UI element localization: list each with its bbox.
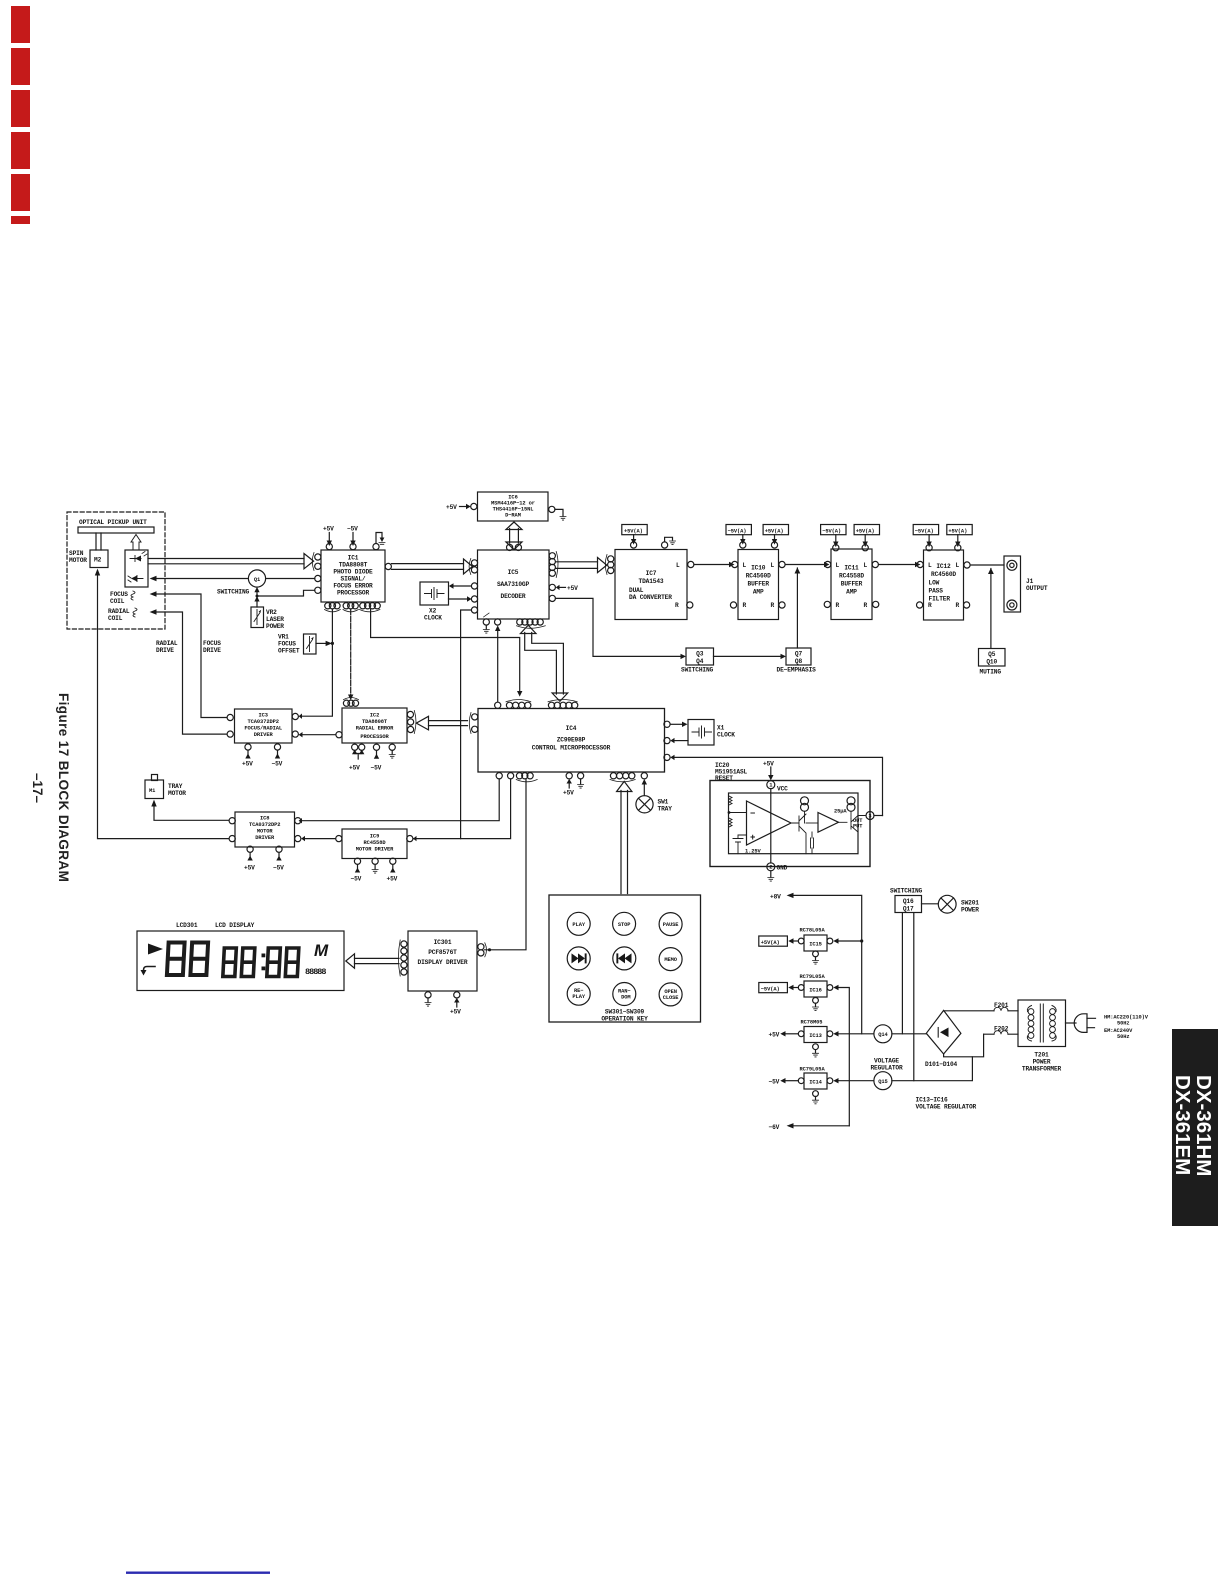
Q3 Q4 switching	[686, 648, 714, 665]
svg-text:PLAY: PLAY	[572, 922, 585, 928]
svg-text:PAUSE: PAUSE	[663, 922, 680, 928]
bridge rectifier D101-D104	[926, 1010, 961, 1054]
svg-text:−5V(A): −5V(A)	[822, 528, 841, 534]
IC3 -5V	[277, 751, 279, 755]
IC8 +5V	[249, 853, 251, 857]
svg-text:BUFFER: BUFFER	[841, 581, 863, 588]
svg-text:+5V: +5V	[323, 526, 334, 533]
wire IC10 L out to IC11	[785, 564, 824, 566]
T201 power transformer	[1018, 1000, 1066, 1047]
operation key panel	[549, 895, 701, 1022]
svg-text:+5V: +5V	[763, 761, 774, 768]
pickup lens arrow	[131, 535, 141, 551]
Q1	[248, 570, 265, 587]
svg-text:Q8: Q8	[795, 658, 803, 665]
IC7 left pins	[608, 556, 614, 562]
wire radial drive	[156, 612, 227, 734]
svg-text:FOCUS ERROR: FOCUS ERROR	[333, 583, 373, 590]
wire IC1 group3 to IC4	[371, 609, 520, 691]
svg-text:VOLTAGE REGULATOR: VOLTAGE REGULATOR	[916, 1104, 977, 1111]
svg-text:IC301: IC301	[434, 939, 452, 946]
svg-text:R: R	[836, 602, 840, 609]
pickup rail	[78, 527, 154, 533]
X2 clock	[420, 582, 449, 605]
IC7 output pins	[688, 561, 694, 567]
wire X1 to IC4	[674, 740, 688, 742]
key REW	[613, 947, 636, 970]
svg-text:Q10: Q10	[986, 659, 997, 666]
svg-text:PUT: PUT	[853, 824, 863, 830]
svg-text:Q1: Q1	[254, 577, 260, 583]
wire VR1 to focus line	[316, 642, 326, 644]
svg-text:R: R	[864, 602, 868, 609]
svg-text:RC78L05A: RC78L05A	[800, 928, 826, 934]
svg-text:TRANSFORMER: TRANSFORMER	[1022, 1066, 1062, 1073]
svg-text:50Hz: 50Hz	[1117, 1021, 1130, 1027]
svg-text:3: 3	[868, 813, 871, 819]
keypad bus	[621, 791, 628, 894]
Q14	[874, 1025, 892, 1043]
IC9 ground	[374, 865, 376, 870]
svg-text:F201: F201	[994, 1002, 1009, 1009]
svg-text:RC79L05A: RC79L05A	[800, 1067, 826, 1073]
svg-text:POWER: POWER	[1033, 1059, 1051, 1066]
svg-text:R: R	[771, 602, 775, 609]
svg-text:L: L	[864, 562, 868, 569]
IC4 ZC99E98P control microprocessor	[478, 709, 665, 773]
svg-text:STOP: STOP	[618, 922, 631, 928]
svg-text:Q15: Q15	[878, 1079, 887, 1085]
IC4 pins right	[664, 721, 670, 727]
wire IC4 to motor drivers lines	[302, 779, 500, 821]
svg-text:+5V: +5V	[563, 790, 574, 797]
svg-text:DECODER: DECODER	[501, 593, 526, 600]
wire IC11 L out to IC12	[879, 564, 916, 566]
IC2 +5V pins	[355, 751, 362, 759]
IC10 RC4560D buffer amp	[738, 550, 779, 620]
svg-text:MOTOR: MOTOR	[257, 829, 274, 835]
svg-text:−5V: −5V	[769, 1079, 780, 1086]
svg-text:TDA1543: TDA1543	[639, 578, 664, 585]
svg-text:1: 1	[769, 783, 772, 789]
VR1 focus offset	[304, 634, 317, 654]
IC1 TDA8808T	[321, 550, 385, 602]
wire SW1	[643, 782, 645, 796]
svg-text:RADIAL: RADIAL	[108, 608, 130, 615]
IC4 pins top	[495, 702, 501, 708]
svg-text:RC79L05A: RC79L05A	[800, 974, 826, 980]
IC20 transistor and cap	[791, 814, 814, 854]
svg-text:DRIVE: DRIVE	[156, 647, 174, 654]
svg-text:PCF8576T: PCF8576T	[428, 949, 457, 956]
J1 output connector	[1004, 556, 1021, 612]
svg-text:IC4: IC4	[566, 725, 577, 732]
key OPEN/CLOSE	[659, 983, 682, 1006]
svg-text:T201: T201	[1034, 1052, 1049, 1059]
svg-text:−5V(A): −5V(A)	[915, 528, 934, 534]
svg-text:2: 2	[769, 865, 772, 871]
svg-text:Q17: Q17	[903, 906, 914, 913]
svg-text:SAA7310GP: SAA7310GP	[497, 581, 530, 588]
IC12 +5V(A)	[947, 525, 972, 535]
svg-text:+5V: +5V	[244, 865, 255, 872]
svg-text:POWER: POWER	[266, 623, 284, 630]
svg-text:−5V: −5V	[371, 765, 382, 772]
wire IC1 group1 down to IC3	[302, 609, 333, 716]
IC12 RC4560D low pass filter	[924, 550, 964, 620]
svg-text:SWITCHING: SWITCHING	[681, 667, 714, 674]
svg-text:−5V(A): −5V(A)	[728, 528, 747, 534]
wire IC5 to X2	[453, 585, 471, 587]
IC5 ground pin bottom	[485, 625, 487, 629]
wire X2 to IC5	[449, 598, 469, 600]
svg-text:IC14: IC14	[809, 1080, 822, 1086]
F201 fuse line	[944, 1010, 1018, 1012]
svg-text:DUAL: DUAL	[629, 587, 644, 594]
svg-text:50Hz: 50Hz	[1117, 1034, 1130, 1040]
svg-text:L: L	[771, 562, 775, 569]
key STOP	[613, 912, 636, 935]
svg-text:+5V: +5V	[446, 504, 457, 511]
svg-text:AMP: AMP	[753, 589, 764, 596]
svg-text:−: −	[750, 809, 755, 819]
wire IC5 left pin down long	[461, 610, 472, 839]
VR2 laser power	[251, 607, 264, 628]
LCD repeat icon	[144, 967, 156, 972]
svg-text:TRAY: TRAY	[658, 806, 673, 813]
svg-text:IC13−IC16: IC13−IC16	[916, 1097, 949, 1104]
IC20 output pin 3	[866, 812, 874, 820]
svg-text:Q4: Q4	[696, 658, 704, 665]
key MEMO	[659, 948, 682, 971]
Q16Q17 feeders	[902, 913, 913, 1081]
svg-text:VCC: VCC	[777, 786, 788, 793]
IC1 pin circles top	[326, 544, 332, 550]
svg-text:IC10: IC10	[751, 565, 766, 572]
svg-text:MOTOR: MOTOR	[69, 557, 87, 564]
svg-text:RADIAL: RADIAL	[156, 640, 178, 647]
IC11 -5V(A)	[821, 525, 846, 535]
svg-text:+5V: +5V	[769, 1032, 780, 1039]
svg-text:X2: X2	[429, 608, 437, 615]
svg-text:R: R	[743, 602, 747, 609]
IC3 +5V	[247, 751, 249, 755]
svg-text:Figure 17 BLOCK DIAGRAM: Figure 17 BLOCK DIAGRAM	[56, 693, 71, 882]
svg-text:CLOCK: CLOCK	[717, 732, 735, 739]
wire Q3Q4 to Q7Q8	[714, 655, 782, 657]
F202 fuse line	[984, 1033, 1018, 1035]
svg-text:MEMO: MEMO	[664, 957, 677, 963]
photo diode symbol	[131, 576, 137, 582]
IC9 +5V	[392, 865, 394, 869]
svg-text:SPIN: SPIN	[69, 550, 84, 557]
IC2 ground pin	[391, 751, 393, 755]
Q15	[874, 1072, 892, 1090]
svg-text:IC9: IC9	[370, 834, 379, 840]
svg-text:R: R	[956, 602, 960, 609]
IC6 D-RAM	[478, 492, 549, 521]
svg-text:IC13: IC13	[809, 1033, 822, 1039]
IC20 reset IC outer box	[710, 781, 870, 867]
svg-text:OUTPUT: OUTPUT	[1026, 585, 1048, 592]
svg-text:L: L	[743, 562, 747, 569]
IC7 +5V(A)	[622, 525, 647, 535]
svg-text:RC4558D: RC4558D	[364, 840, 387, 846]
svg-text:FOCUS: FOCUS	[278, 641, 296, 648]
svg-text:IC12: IC12	[936, 563, 951, 570]
svg-text:L: L	[928, 562, 932, 569]
IC5 pins left	[471, 560, 477, 566]
svg-text:IC2: IC2	[370, 713, 379, 719]
spin motor M2	[90, 550, 108, 568]
SW201 power switch	[938, 895, 956, 913]
svg-text:CLOCK: CLOCK	[424, 615, 442, 622]
svg-text:Q16: Q16	[903, 898, 914, 905]
IC10 +5V(A)	[763, 525, 788, 535]
svg-text:LOW: LOW	[929, 580, 940, 587]
red edge registration marks	[11, 6, 30, 224]
wire pickup to IC1 bus	[148, 559, 304, 564]
svg-text:OFFSET: OFFSET	[278, 648, 300, 655]
IC20 output stage	[839, 816, 867, 854]
AC plug	[1066, 1022, 1077, 1024]
svg-text:DRIVE: DRIVE	[203, 647, 221, 654]
bridge bottom rail	[944, 1034, 984, 1057]
IC8 TCA0372DP2 motor driver	[235, 812, 295, 847]
LCD digits 88:88	[223, 948, 299, 977]
svg-text:SWITCHING: SWITCHING	[890, 888, 923, 895]
svg-text:IC7: IC7	[646, 570, 657, 577]
figure caption vertical	[30, 693, 71, 882]
IC1 ground hook	[376, 533, 382, 544]
svg-text:VOLTAGE: VOLTAGE	[874, 1058, 899, 1065]
svg-text:−5V(A): −5V(A)	[761, 986, 780, 992]
svg-text:+5V(A): +5V(A)	[856, 528, 875, 534]
IC5-IC6 vertical bus	[510, 529, 519, 544]
svg-text:L: L	[676, 562, 680, 569]
IC5 SAA7310GP decoder	[478, 550, 550, 619]
svg-text:Q14: Q14	[878, 1032, 888, 1038]
wire IC1 group2 down to IC2	[350, 609, 352, 695]
svg-text:DRIVER: DRIVER	[254, 732, 274, 738]
svg-text:M: M	[314, 941, 329, 960]
svg-text:MUTING: MUTING	[980, 669, 1002, 676]
IC20 vcc rail	[770, 789, 772, 863]
svg-text:SW1: SW1	[658, 799, 669, 806]
Q5 Q10 muting	[979, 649, 1006, 667]
Q16 Q17 switching	[895, 896, 922, 913]
svg-text:TDA8808T: TDA8808T	[362, 719, 388, 725]
IC6 right pin to ground	[549, 506, 555, 512]
svg-text:MOTOR DRIVER: MOTOR DRIVER	[356, 847, 394, 853]
model tab DX-361HM / DX-361EM	[1171, 1029, 1218, 1226]
svg-text:M1: M1	[149, 788, 155, 794]
IC20 current source 1	[801, 797, 809, 805]
svg-text:TDA8808T: TDA8808T	[339, 562, 368, 569]
svg-text:Q7: Q7	[795, 650, 803, 657]
svg-text:+5V: +5V	[387, 876, 398, 883]
wire M1 to IC8	[154, 806, 229, 820]
svg-text:−5V: −5V	[347, 526, 358, 533]
svg-text:VR1: VR1	[278, 634, 289, 641]
svg-text:POWER: POWER	[961, 907, 979, 914]
wire spin motor drive	[98, 575, 229, 839]
IC5-IC4 open bus	[525, 633, 564, 695]
svg-text:DX-361EM: DX-361EM	[1171, 1075, 1194, 1175]
svg-text:ZC99E98P: ZC99E98P	[557, 737, 586, 744]
M1 tray motor	[152, 775, 158, 781]
svg-text:RADIAL ERROR: RADIAL ERROR	[356, 726, 394, 732]
svg-text:TRAY: TRAY	[168, 783, 183, 790]
LCD digits 88	[167, 943, 208, 976]
IC7 ground hook	[662, 542, 668, 548]
wire Q14 to bridge	[892, 1033, 926, 1035]
IC20 battery 1.25V	[733, 835, 747, 854]
svg-text:TCA0372DP2: TCA0372DP2	[248, 719, 279, 725]
svg-text:+5V: +5V	[450, 1009, 461, 1016]
IC20 buffer amp	[818, 813, 839, 833]
svg-text:PASS: PASS	[929, 588, 944, 595]
laser diode symbol	[130, 556, 141, 562]
wire IC12 L out to J1	[970, 564, 1004, 566]
svg-text:R: R	[928, 602, 932, 609]
svg-text:GND: GND	[777, 865, 788, 872]
IC12 -5V(A)	[913, 525, 938, 535]
svg-text:DA CONVERTER: DA CONVERTER	[629, 594, 672, 601]
IC8 -5V	[278, 853, 280, 857]
key FF	[567, 947, 590, 970]
svg-text:M2: M2	[94, 557, 102, 564]
key RANDOM	[613, 983, 636, 1006]
svg-text:+5V(A): +5V(A)	[765, 528, 784, 534]
svg-text:+8V: +8V	[770, 894, 781, 901]
wire Q1 to pickup	[156, 578, 248, 580]
IC4 pins left	[472, 714, 478, 720]
svg-text:FOCUS: FOCUS	[203, 640, 221, 647]
IC4 ground bottom	[580, 779, 582, 784]
IC11 +5V(A)	[854, 525, 879, 535]
wire Q1 to IC1	[266, 578, 315, 580]
IC10 -5V(A)	[726, 525, 751, 535]
muting riser	[990, 569, 992, 649]
svg-text:SWITCHING: SWITCHING	[217, 589, 250, 596]
key PAUSE	[659, 913, 682, 936]
wire IC8 to IC9	[305, 838, 336, 840]
svg-text:RC4560D: RC4560D	[931, 571, 956, 578]
IC301 PCF8576T display driver	[408, 931, 477, 991]
Q7 Q8 de-emphasis	[786, 648, 811, 665]
LCD play icon	[148, 944, 163, 955]
svg-text:DRIVER: DRIVER	[255, 835, 275, 841]
IC4 +5V bottom	[568, 783, 570, 789]
svg-text:+5V: +5V	[349, 765, 360, 772]
svg-text:+5V(A): +5V(A)	[624, 528, 643, 534]
IC20 op-amp	[747, 801, 792, 845]
svg-text:–17–: –17–	[30, 773, 45, 804]
svg-text:L: L	[956, 562, 960, 569]
svg-text:F202: F202	[994, 1026, 1009, 1033]
wire reset to IC4	[674, 757, 883, 815]
svg-text:VR2: VR2	[266, 609, 277, 616]
svg-text:FOCUS/RADIAL: FOCUS/RADIAL	[244, 726, 282, 732]
svg-text:IC1: IC1	[348, 555, 359, 562]
svg-text:R: R	[675, 602, 679, 609]
svg-text:+: +	[750, 833, 755, 843]
svg-text:CLOSE: CLOSE	[663, 995, 680, 1001]
svg-text:FILTER: FILTER	[929, 596, 951, 603]
svg-text:PROCESSOR: PROCESSOR	[360, 734, 389, 740]
svg-text:−6V: −6V	[769, 1124, 780, 1131]
svg-text:X1: X1	[717, 725, 725, 732]
IC1 pin circles bottom	[325, 603, 331, 609]
IC301 to LCD bus	[355, 958, 400, 963]
svg-text:REGULATOR: REGULATOR	[870, 1065, 903, 1072]
IC2 -5V pin	[376, 751, 378, 756]
IC20 current source 2	[847, 797, 855, 805]
SW1 tray switch	[636, 796, 653, 813]
wire IC4 to X1	[670, 723, 682, 725]
svg-text:25μA: 25μA	[834, 809, 847, 815]
svg-text:COIL: COIL	[108, 615, 123, 622]
svg-text:IC5: IC5	[508, 569, 519, 576]
svg-text:COIL: COIL	[110, 598, 125, 605]
svg-text:Q3: Q3	[696, 650, 704, 657]
wire IC5 pin to IC4 top	[497, 628, 499, 702]
svg-text:LCD DISPLAY: LCD DISPLAY	[215, 922, 255, 929]
svg-text:1.25V: 1.25V	[745, 849, 762, 855]
svg-text:+5V(A): +5V(A)	[761, 940, 780, 946]
photo pickup box	[125, 550, 148, 587]
svg-text:PHOTO DIODE: PHOTO DIODE	[333, 569, 373, 576]
svg-text:L: L	[836, 562, 840, 569]
IC5 pins top	[507, 544, 513, 550]
svg-text:+5V: +5V	[567, 585, 578, 592]
wire Q16Q17 to SW201	[922, 903, 939, 905]
bottom blue rule	[126, 1572, 270, 1574]
svg-text:+5V: +5V	[242, 761, 253, 768]
svg-text:FOCUS: FOCUS	[110, 591, 128, 598]
IC301 ground	[427, 998, 429, 1002]
svg-text:−5V: −5V	[272, 761, 283, 768]
IC11 RC4558D buffer amp	[831, 549, 872, 620]
svg-text:−5V: −5V	[273, 865, 284, 872]
IC9 RC4558D motor driver	[342, 829, 407, 859]
svg-text:IC3: IC3	[258, 713, 267, 719]
svg-text:88888: 88888	[305, 967, 326, 977]
svg-text:SIGNAL/: SIGNAL/	[341, 576, 366, 583]
svg-text:LASER: LASER	[266, 616, 284, 623]
IC4 to IC2 bus	[429, 721, 468, 726]
wire IC5 pin41 to Q3 Q4	[556, 598, 682, 656]
IC5 to IC7 bus	[556, 562, 598, 569]
svg-text:DISPLAY DRIVER: DISPLAY DRIVER	[418, 959, 468, 966]
IC7 TDA1543 DAC	[615, 550, 687, 620]
svg-text:PLAY: PLAY	[572, 994, 585, 1000]
svg-text:CONTROL MICROPROCESSOR: CONTROL MICROPROCESSOR	[532, 745, 611, 752]
IC5 pins right	[549, 553, 555, 559]
svg-text:+5V(A): +5V(A)	[948, 528, 967, 534]
IC1 to IC5 bus	[392, 564, 464, 570]
IC20 inner box	[729, 793, 859, 854]
IC3 TCA0372DP2 focus/radial driver	[235, 709, 293, 743]
svg-text:SW301−SW309: SW301−SW309	[605, 1009, 645, 1016]
svg-text:OPERATION KEY: OPERATION KEY	[601, 1016, 648, 1023]
IC301 +5V	[456, 1002, 458, 1008]
svg-text:SW201: SW201	[961, 900, 979, 907]
IC1 pin circles left	[315, 554, 321, 560]
svg-text:RC4558D: RC4558D	[839, 573, 864, 580]
svg-text:RC78M05: RC78M05	[801, 1020, 823, 1026]
